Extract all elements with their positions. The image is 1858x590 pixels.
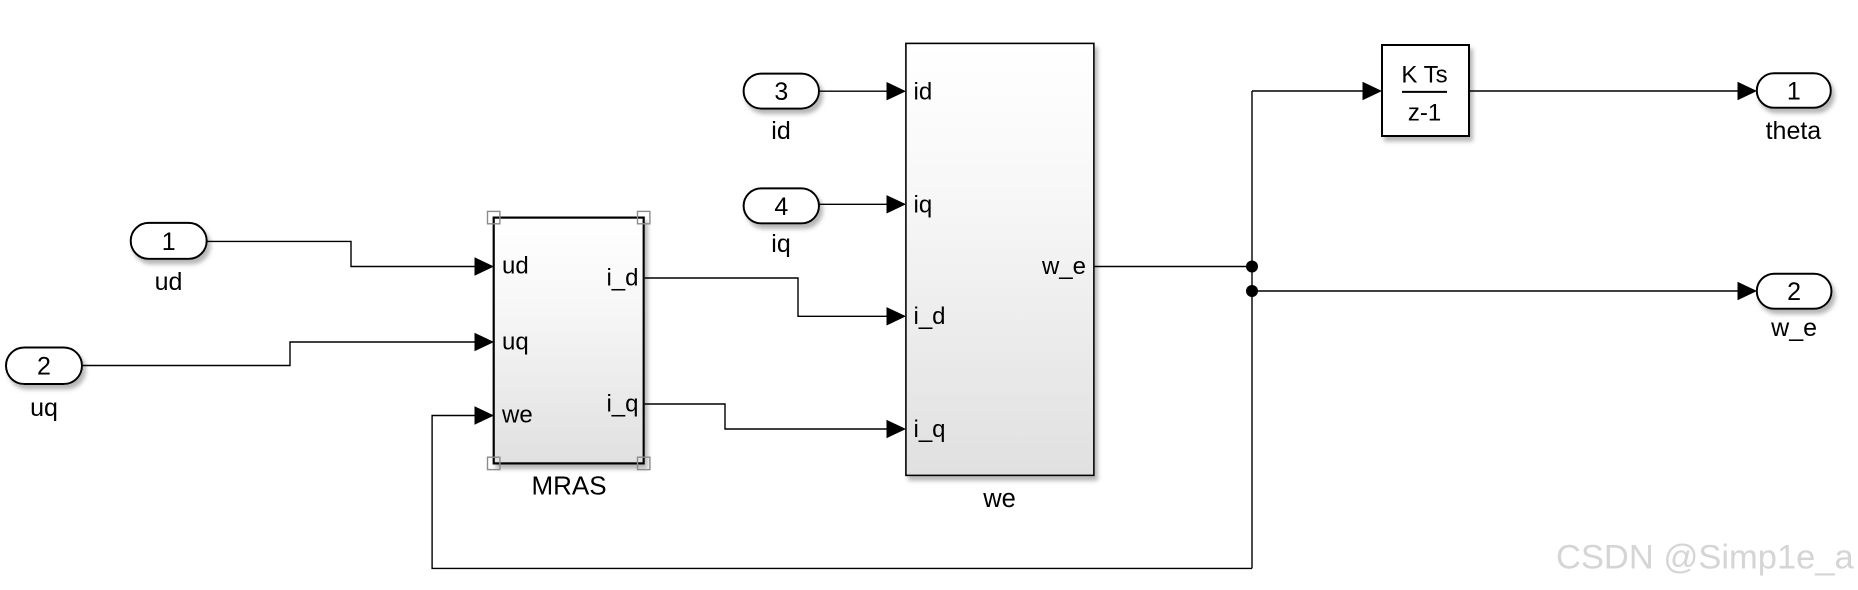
svg-text:CSDN @Simp1e_a: CSDN @Simp1e_a <box>1556 539 1855 577</box>
svg-text:id: id <box>914 78 933 105</box>
wire MRAS i_q to we i_q <box>645 404 906 438</box>
svg-text:id: id <box>771 117 790 145</box>
discrete integrator K Ts / z-1 <box>1382 45 1469 136</box>
wire inport2 to MRAS uq <box>82 333 494 366</box>
svg-text:i_d: i_d <box>914 303 946 330</box>
wire we w_e to junction <box>1094 266 1252 268</box>
svg-text:i_d: i_d <box>606 265 638 292</box>
svg-text:ud: ud <box>502 253 529 280</box>
svg-text:2: 2 <box>1787 278 1801 306</box>
wire inport4 to we iq <box>819 195 906 213</box>
inport 4 (iq) <box>744 188 819 223</box>
selection handle MRAS bottom-left <box>488 457 500 469</box>
svg-text:we: we <box>501 402 533 429</box>
wire feedback junction to MRAS we <box>432 406 1252 568</box>
selection handle MRAS top-left <box>488 211 500 223</box>
svg-text:w_e: w_e <box>1770 314 1817 342</box>
selection handle MRAS top-right <box>638 211 650 223</box>
wire inport3 to we id <box>819 82 906 100</box>
selection handle MRAS bottom-right <box>638 457 650 469</box>
svg-text:4: 4 <box>774 193 788 221</box>
wire junction vertical <box>1251 91 1253 568</box>
svg-text:MRAS: MRAS <box>531 470 606 500</box>
wire inport1 to MRAS ud <box>207 241 494 275</box>
svg-text:uq: uq <box>30 394 58 422</box>
svg-text:uq: uq <box>502 329 529 356</box>
svg-text:z-1: z-1 <box>1408 99 1441 126</box>
junction dot B <box>1246 285 1258 297</box>
svg-text:2: 2 <box>37 353 51 381</box>
outport 2 (w_e) <box>1757 274 1832 309</box>
svg-text:ud: ud <box>155 268 183 296</box>
svg-text:K Ts: K Ts <box>1401 62 1447 89</box>
wire junction to outport w_e <box>1252 282 1757 300</box>
inport 3 (id) <box>744 74 819 109</box>
wire K Ts to outport theta <box>1469 82 1757 100</box>
svg-text:theta: theta <box>1766 117 1822 145</box>
svg-text:i_q: i_q <box>914 416 946 443</box>
svg-text:w_e: w_e <box>1041 253 1086 280</box>
wire MRAS i_d to we i_d <box>645 278 906 326</box>
svg-text:iq: iq <box>771 230 790 258</box>
junction dot A <box>1246 261 1258 273</box>
svg-text:we: we <box>982 485 1016 513</box>
svg-text:iq: iq <box>914 191 933 218</box>
svg-text:3: 3 <box>774 78 788 106</box>
svg-text:1: 1 <box>162 228 176 256</box>
subsystem MRAS <box>494 218 644 464</box>
svg-text:1: 1 <box>1787 78 1801 106</box>
subsystem we <box>906 43 1094 475</box>
wire junction to K Ts <box>1252 82 1382 100</box>
inport 2 (uq) <box>6 348 82 385</box>
outport 1 (theta) <box>1757 73 1831 108</box>
inport 1 (ud) <box>131 223 207 259</box>
svg-text:i_q: i_q <box>606 391 638 418</box>
